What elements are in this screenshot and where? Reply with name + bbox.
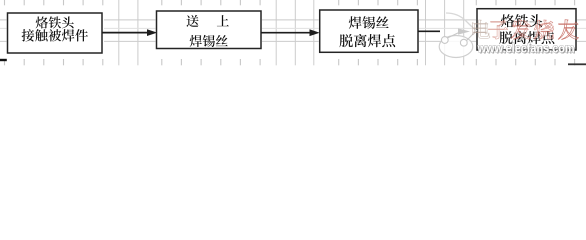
box 2 text line 2 [190, 35, 202, 47]
watermark logo ellipse [439, 36, 473, 58]
box 2 text line 1 [187, 15, 199, 27]
box 2: feed solder wire [157, 11, 262, 49]
watermark logo small circle 2 [460, 39, 467, 46]
box 1: iron tip touches workpiece [8, 13, 103, 53]
arrow 1 [102, 32, 148, 34]
watermark logo small circle 1 [441, 37, 448, 44]
watermark logo tail 1 [448, 32, 460, 38]
grid horizontal line y20 [0, 19, 586, 21]
white pad behind box 1 [7, 6, 105, 60]
box 3: solder wire leaves joint [320, 10, 418, 52]
arrow 3 [418, 30, 440, 32]
box 4: iron tip leaves joint [477, 9, 576, 50]
bottom-left black bar [0, 59, 7, 61]
svg-text:www.elecfans.com: www.elecfans.com [477, 42, 575, 56]
box 3 text line 1 [349, 16, 362, 29]
grid horizontal line y28 [0, 27, 586, 29]
arrow 2 [261, 32, 311, 34]
watermark logo swoosh [446, 13, 477, 31]
white pad behind box 2 [156, 6, 263, 60]
arrow 3 head (faded under logo) [458, 28, 470, 34]
box 4 text line 1 [501, 14, 514, 27]
bottom-right dark bar [568, 63, 586, 65]
watermark logo tail 2 [467, 32, 476, 41]
white pad behind box 4 [476, 6, 577, 60]
box 1 text line 2 [22, 29, 35, 41]
grid vertical lines [4, 0, 6, 5]
watermark red characters 电子发烧友 [472, 20, 489, 38]
white pad behind box 3 [319, 6, 419, 60]
grid horizontal line y41 [0, 40, 586, 42]
box 3 text line 2 [339, 34, 352, 47]
box 1 text line 1 [36, 16, 48, 28]
box 4 text line 2 [499, 31, 512, 44]
